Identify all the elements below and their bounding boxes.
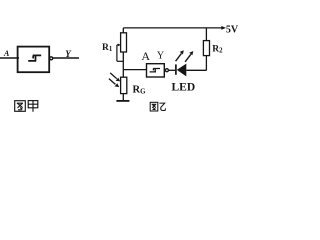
op-amp U2 schmitt box (147, 64, 165, 77)
hysteresis symbol U1 (28, 55, 41, 61)
hysteresis symbol U2 (150, 69, 160, 73)
ground (116, 100, 129, 102)
bubble U2 output inverter circle (165, 69, 168, 72)
svg-text:R2: R2 (212, 44, 223, 54)
svg-text:Y: Y (157, 51, 164, 62)
wire left branch top (122, 28, 124, 33)
svg-text:RG: RG (133, 84, 147, 95)
svg-text:R1: R1 (102, 43, 113, 53)
photoresistor RG body (121, 77, 127, 93)
caption fig jia (tu jia) (15, 101, 38, 112)
wire input A (0, 57, 19, 59)
+5V arrow head (221, 26, 226, 30)
wire U2 output to LED (169, 69, 176, 71)
light arrow 2 into RG (109, 79, 116, 85)
light arrow 1 into RG (110, 73, 117, 79)
rheostat R1 wiper arrow (117, 45, 119, 61)
svg-text:A: A (3, 49, 10, 58)
wire +5V top rail (123, 27, 224, 29)
svg-text:A: A (141, 49, 150, 63)
resistor R2 body (203, 41, 209, 56)
wire divider node to U2 input (123, 69, 146, 71)
op-amp U1 schmitt box (18, 47, 50, 73)
wire output Y (53, 57, 79, 59)
wire left branch bottom (122, 94, 124, 101)
LED triangle (177, 64, 187, 77)
LED cathode bar (175, 64, 177, 74)
svg-text:5V: 5V (226, 24, 239, 35)
resistor R1 body (121, 33, 127, 52)
bubble U1 output inverter circle (50, 57, 53, 60)
LED light arrow 2 (185, 54, 191, 62)
wire wiper to branch (117, 60, 123, 62)
wire left branch middle (122, 52, 124, 77)
caption fig yi (tu yi) (150, 102, 165, 111)
LED light arrow 1 (176, 54, 182, 62)
wire LED to R2 branch (186, 56, 206, 71)
wire R2 to rail (205, 28, 207, 41)
svg-text:LED: LED (172, 82, 196, 94)
